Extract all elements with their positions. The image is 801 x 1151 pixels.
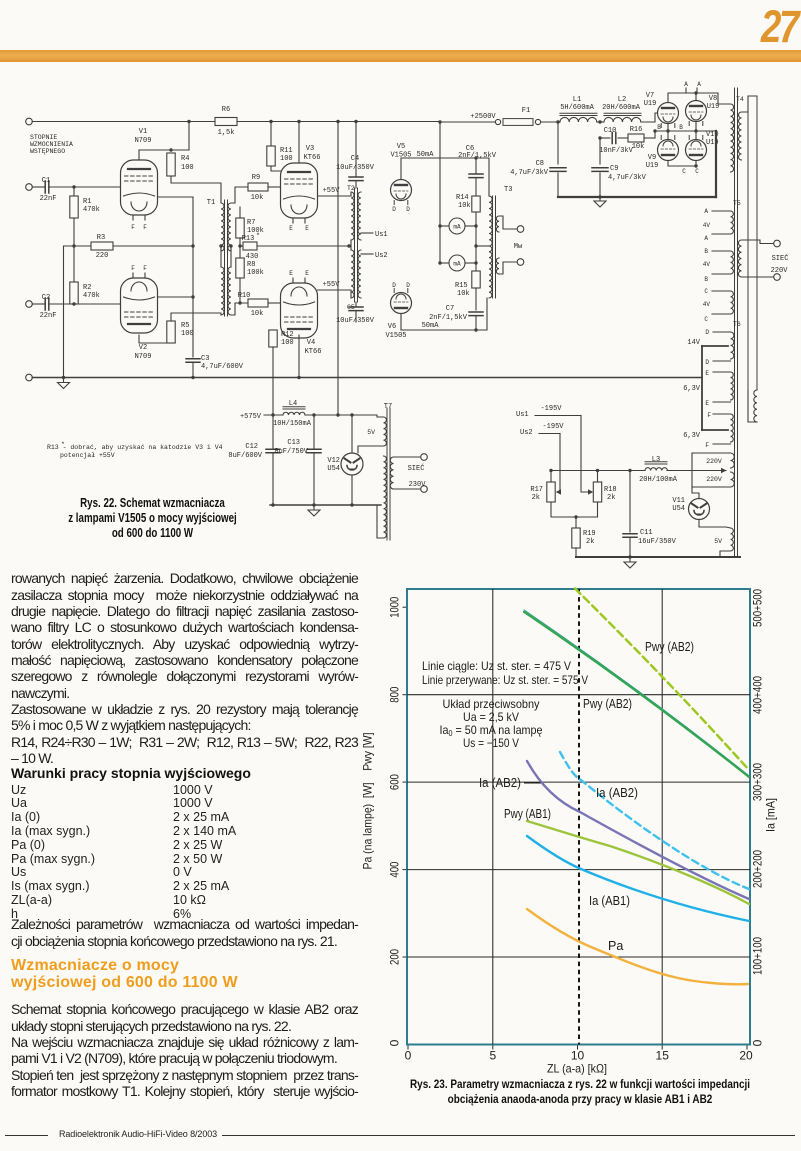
- svg-text:V3: V3: [306, 145, 314, 153]
- svg-text:4V: 4V: [703, 222, 711, 229]
- resistor R9: [248, 183, 268, 191]
- capacitor C5: [355, 302, 357, 306]
- potentiometer R17: [547, 482, 555, 502]
- node ground terminal: [26, 374, 33, 381]
- svg-text:A: A: [704, 235, 708, 242]
- svg-text:5V: 5V: [367, 429, 375, 436]
- svg-text:D: D: [392, 282, 396, 289]
- svg-text:Us2: Us2: [375, 252, 388, 260]
- meter mA1: [440, 225, 449, 227]
- svg-text:0: 0: [405, 1049, 412, 1063]
- svg-text:10k: 10k: [251, 310, 264, 318]
- wire Us1 tap: [361, 232, 373, 234]
- svg-text:V9: V9: [648, 154, 656, 162]
- choke L4 10H/150mA: [283, 407, 305, 409]
- resistor R2: [73, 246, 75, 282]
- capacitor C9: [599, 138, 601, 164]
- svg-text:potencjał +55V: potencjał +55V: [60, 452, 115, 459]
- svg-text:4V: 4V: [703, 261, 711, 268]
- svg-text:1000: 1000: [388, 596, 402, 617]
- svg-text:0: 0: [751, 1039, 765, 1046]
- svg-text:R4: R4: [181, 155, 189, 163]
- svg-text:V12: V12: [327, 457, 340, 465]
- svg-text:A: A: [684, 81, 688, 88]
- resistor R7: [239, 207, 241, 218]
- choke L3 20H/100mA: [551, 470, 645, 472]
- wire V1 cathode to C3: [158, 196, 194, 198]
- svg-text:Us = −150 V: Us = −150 V: [463, 736, 519, 750]
- svg-text:-195V: -195V: [542, 423, 564, 431]
- resistor R15: [475, 263, 477, 271]
- svg-text:100k: 100k: [247, 269, 264, 277]
- svg-text:N709: N709: [135, 353, 152, 361]
- wire V4 cathode +55V: [318, 289, 352, 291]
- svg-text:A: A: [697, 81, 701, 88]
- svg-text:U54: U54: [672, 505, 685, 513]
- svg-text:L4: L4: [289, 400, 297, 408]
- svg-text:R7: R7: [247, 219, 255, 227]
- resistor R11: [270, 122, 272, 147]
- svg-text:N709: N709: [135, 137, 152, 145]
- capacitor C1: [26, 184, 33, 191]
- svg-text:F: F: [707, 412, 711, 419]
- svg-text:Pwy (AB1): Pwy (AB1): [504, 807, 551, 821]
- svg-text:V5: V5: [397, 143, 405, 151]
- svg-text:R18: R18: [604, 486, 617, 494]
- svg-text:U19: U19: [644, 100, 657, 108]
- svg-text:C10: C10: [604, 127, 617, 135]
- wire V5 anode: [401, 158, 489, 196]
- svg-text:ZL (a-a) [kΩ]: ZL (a-a) [kΩ]: [547, 1062, 607, 1076]
- curves: [524, 589, 749, 985]
- svg-text:D: D: [705, 359, 709, 366]
- svg-text:50mA: 50mA: [422, 322, 440, 330]
- resistor R14: [472, 196, 480, 212]
- axis ticks: [407, 1046, 409, 1050]
- svg-text:Linie przerywane: Uz st. ster.: Linie przerywane: Uz st. ster. = 575 V: [422, 673, 588, 687]
- svg-text:T6: T6: [733, 321, 741, 328]
- svg-text:5V: 5V: [714, 538, 722, 545]
- resistor R10: [248, 299, 268, 307]
- svg-text:STOPNIE: STOPNIE: [30, 134, 57, 141]
- svg-text:2k: 2k: [607, 494, 615, 502]
- svg-text:5H/600mA: 5H/600mA: [560, 104, 594, 112]
- svg-text:6,3V: 6,3V: [683, 385, 701, 393]
- svg-text:20H/100mA: 20H/100mA: [639, 476, 678, 484]
- svg-text:C12: C12: [245, 443, 258, 451]
- svg-text:WZMOCNIENIA: WZMOCNIENIA: [30, 141, 73, 148]
- svg-text:2k: 2k: [586, 538, 594, 546]
- svg-text:Us1: Us1: [375, 231, 388, 239]
- svg-text:V2: V2: [139, 344, 147, 352]
- tube V6 V1505: [391, 293, 412, 314]
- potentiometer R18: [593, 482, 601, 502]
- svg-text:470k: 470k: [83, 206, 100, 214]
- svg-text:0: 0: [388, 1039, 402, 1046]
- svg-text:R1: R1: [83, 198, 91, 206]
- svg-text:B: B: [704, 276, 708, 283]
- svg-text:C2: C2: [42, 294, 50, 302]
- winding 5V rectifier heater: [731, 528, 734, 551]
- wire heater bus thick: [701, 346, 703, 430]
- capacitor C8: [557, 122, 559, 164]
- svg-text:Ia [mA]: Ia [mA]: [764, 798, 778, 832]
- wire +2500V drop: [439, 122, 441, 263]
- svg-text:T7: T7: [384, 403, 392, 411]
- svg-text:C: C: [682, 168, 686, 175]
- winding SIEC 220V: [738, 240, 741, 277]
- resistor R16: [628, 134, 644, 142]
- svg-text:R16: R16: [630, 126, 643, 134]
- svg-text:V7: V7: [646, 92, 654, 100]
- svg-text:220V: 220V: [771, 267, 789, 275]
- svg-text:5: 5: [489, 1049, 496, 1063]
- capacitor C3: [186, 359, 200, 363]
- svg-text:C7: C7: [446, 305, 454, 313]
- wire bottom dc bus: [576, 556, 740, 558]
- svg-text:F: F: [131, 265, 135, 272]
- svg-text:F: F: [131, 224, 135, 231]
- svg-text:10k: 10k: [457, 290, 470, 298]
- svg-text:16uF/350V: 16uF/350V: [638, 538, 677, 546]
- svg-text:10uF/350V: 10uF/350V: [336, 164, 375, 172]
- svg-text:Ia (AB1): Ia (AB1): [589, 894, 630, 908]
- svg-text:220V: 220V: [706, 458, 722, 465]
- tube V2 N709: [121, 278, 158, 333]
- svg-text:R19: R19: [583, 530, 596, 538]
- svg-text:10uF/350V: 10uF/350V: [336, 317, 375, 325]
- wire: [597, 121, 604, 123]
- capacitor C12: [272, 415, 274, 448]
- capacitor C4: [355, 122, 357, 177]
- svg-text:Pa: Pa: [608, 939, 623, 953]
- svg-text:C13: C13: [287, 439, 300, 447]
- svg-text:100: 100: [280, 155, 293, 163]
- svg-text:C: C: [704, 316, 708, 323]
- svg-text:F1: F1: [522, 107, 530, 115]
- svg-text:T1: T1: [207, 199, 215, 207]
- svg-text:100+100: 100+100: [751, 937, 765, 975]
- svg-text:C11: C11: [640, 529, 653, 537]
- svg-text:E: E: [305, 225, 309, 232]
- tube V10 U19: [686, 140, 707, 161]
- svg-text:B: B: [704, 248, 708, 255]
- capacitor C10: [600, 137, 610, 139]
- svg-text:10k: 10k: [632, 143, 645, 151]
- svg-text:A: A: [704, 208, 708, 215]
- node input terminal IN1: [26, 118, 33, 125]
- capacitor C2: [26, 301, 33, 308]
- svg-text:R6: R6: [222, 106, 230, 114]
- svg-text:C: C: [695, 168, 699, 175]
- ground output: [624, 558, 636, 568]
- svg-text:V4: V4: [307, 339, 315, 347]
- svg-text:14V: 14V: [687, 339, 700, 347]
- wire rectifier top A: [668, 93, 718, 103]
- tube V11 U54: [689, 499, 710, 520]
- svg-text:mA: mA: [453, 260, 461, 267]
- resistor R12: [272, 330, 274, 338]
- svg-text:4,7uF/3kV: 4,7uF/3kV: [510, 169, 549, 177]
- svg-text:10nF/3kV: 10nF/3kV: [599, 147, 633, 155]
- gridlines: [407, 694, 750, 696]
- svg-text:KT66: KT66: [305, 348, 322, 356]
- svg-text:U19: U19: [707, 103, 720, 111]
- winding 220V anode: [731, 453, 735, 468]
- svg-text:500+500: 500+500: [751, 589, 765, 627]
- wire T3 centre tap: [475, 226, 477, 263]
- svg-text:T5: T5: [733, 200, 741, 207]
- svg-text:D: D: [406, 282, 410, 289]
- wire T1 secondary taps: [231, 187, 248, 203]
- svg-text:T2: T2: [347, 185, 355, 192]
- svg-text:Ia (AB2): Ia (AB2): [479, 776, 521, 790]
- svg-text:E: E: [305, 270, 309, 277]
- svg-text:100: 100: [181, 330, 194, 338]
- svg-text:1,5k: 1,5k: [218, 129, 235, 137]
- svg-text:D: D: [392, 206, 396, 213]
- curve labels: [422, 640, 694, 953]
- capacitor C6: [475, 158, 477, 173]
- svg-text:E: E: [705, 400, 709, 407]
- svg-text:200+200: 200+200: [751, 850, 765, 888]
- chart frame: [403, 589, 751, 1050]
- wire pot bottoms: [551, 502, 598, 517]
- svg-text:U19: U19: [646, 162, 659, 170]
- tube V9 U19: [658, 140, 679, 161]
- svg-text:C4: C4: [351, 155, 359, 163]
- svg-text:Us1: Us1: [516, 411, 529, 419]
- tube V1 N709: [121, 160, 158, 215]
- svg-text:R17: R17: [530, 486, 543, 494]
- svg-text:V1: V1: [139, 128, 147, 136]
- svg-text:Pwy (AB2): Pwy (AB2): [583, 697, 632, 711]
- ground supply: [558, 196, 716, 198]
- wire Mw secondary: [499, 216, 517, 229]
- svg-text:10: 10: [571, 1049, 585, 1063]
- fuse F1: [440, 121, 496, 123]
- wire rectifier mid B: [667, 124, 669, 140]
- wire Us2 tap: [361, 253, 373, 255]
- resistor R13: [240, 245, 243, 247]
- svg-text:F: F: [705, 442, 709, 449]
- svg-text:F: F: [143, 265, 147, 272]
- svg-text:SIEĆ: SIEĆ: [408, 463, 425, 473]
- svg-text:C8: C8: [536, 160, 544, 168]
- svg-text:Pa (na lampę) [W] Pwy [W]: Pa (na lampę) [W] Pwy [W]: [361, 733, 375, 870]
- svg-text:R10: R10: [238, 292, 251, 300]
- capacitor C7: [469, 312, 483, 316]
- resistor R1: [73, 187, 75, 196]
- svg-text:R15: R15: [455, 282, 468, 290]
- svg-text:20H/600mA: 20H/600mA: [602, 104, 641, 112]
- resistor R4: [167, 153, 175, 176]
- tube V8 U19: [686, 101, 707, 122]
- svg-text:B: B: [657, 124, 661, 131]
- wire pot tops: [550, 471, 552, 483]
- wire V6 anode: [401, 298, 487, 330]
- svg-text:Mw: Mw: [514, 243, 523, 251]
- svg-text:Ua = 2,5 kV: Ua = 2,5 kV: [463, 710, 519, 724]
- wire V1 anode: [188, 122, 190, 151]
- svg-text:20: 20: [739, 1049, 753, 1063]
- svg-text:Linie ciągle: Uz st. ster. = 4: Linie ciągle: Uz st. ster. = 475 V: [422, 659, 571, 673]
- resistor R6: [215, 118, 237, 126]
- capacitor C13: [313, 415, 315, 448]
- svg-text:F: F: [143, 224, 147, 231]
- wire to rectifier: [641, 113, 658, 122]
- svg-text:C3: C3: [201, 355, 209, 363]
- tube V5 V1505: [391, 180, 412, 201]
- svg-text:*: *: [61, 441, 65, 448]
- wire V3 anode: [298, 122, 300, 164]
- winding T7 primary: [390, 457, 393, 489]
- svg-text:C: C: [704, 288, 708, 295]
- svg-text:800: 800: [388, 686, 402, 702]
- svg-text:Układ przeciwsobny: Układ przeciwsobny: [443, 697, 540, 711]
- capacitor C11: [629, 471, 631, 533]
- svg-text:R3: R3: [97, 234, 105, 242]
- wire HV secondary right: [742, 96, 758, 112]
- svg-text:R2: R2: [83, 284, 91, 292]
- wire ground branch: [63, 246, 65, 378]
- svg-text:T3: T3: [504, 186, 512, 194]
- meter mA2: [440, 262, 449, 264]
- wire +575V feed: [337, 122, 339, 416]
- svg-text:4,7uF/600V: 4,7uF/600V: [201, 363, 244, 371]
- svg-text:L3: L3: [652, 456, 660, 464]
- svg-text:D: D: [406, 206, 410, 213]
- svg-text:470k: 470k: [83, 292, 100, 300]
- svg-text:U54: U54: [327, 465, 340, 473]
- tube V12 U54: [351, 415, 353, 453]
- svg-text:2nF/1,5kV: 2nF/1,5kV: [429, 314, 468, 322]
- svg-text:+2500V: +2500V: [470, 113, 496, 121]
- svg-text:R13 - dobrać, aby uzyskać na k: R13 - dobrać, aby uzyskać na katodzie V3…: [47, 444, 223, 451]
- svg-text:200: 200: [388, 949, 402, 965]
- svg-text:230V: 230V: [409, 481, 427, 489]
- svg-text:10H/150mA: 10H/150mA: [273, 420, 312, 428]
- svg-text:100: 100: [181, 164, 194, 172]
- svg-text:E: E: [289, 225, 293, 232]
- svg-text:V8: V8: [709, 95, 717, 103]
- svg-text:R9: R9: [252, 174, 260, 182]
- svg-text:220: 220: [96, 252, 109, 260]
- wire rectifier dc rail: [270, 504, 381, 506]
- svg-text:mA: mA: [453, 223, 461, 230]
- svg-text:E: E: [289, 270, 293, 277]
- svg-text:E: E: [705, 370, 709, 377]
- resistor R3: [72, 244, 75, 247]
- svg-text:400: 400: [388, 861, 402, 877]
- svg-text:R5: R5: [181, 322, 189, 330]
- svg-text:R8: R8: [247, 261, 255, 269]
- ground main: [58, 379, 70, 389]
- svg-text:Pwy (AB2): Pwy (AB2): [645, 640, 694, 654]
- svg-text:Us2: Us2: [520, 429, 533, 437]
- svg-text:*: *: [256, 233, 260, 241]
- svg-text:8uF/750V: 8uF/750V: [274, 448, 308, 456]
- svg-text:R13: R13: [242, 235, 255, 243]
- svg-text:22nF: 22nF: [40, 312, 57, 320]
- svg-text:4V: 4V: [703, 301, 711, 308]
- svg-text:SIEĆ: SIEĆ: [772, 253, 789, 263]
- wire top rail +575V: [32, 121, 440, 123]
- choke L1 5H/600mA: [560, 113, 597, 115]
- svg-text:430: 430: [246, 253, 259, 261]
- svg-text:C9: C9: [610, 165, 618, 173]
- svg-text:V1505: V1505: [385, 332, 406, 340]
- tube V3 KT66: [281, 163, 318, 218]
- svg-text:C5: C5: [347, 304, 355, 311]
- svg-text:+575V: +575V: [240, 413, 262, 421]
- svg-text:15: 15: [656, 1049, 670, 1063]
- svg-text:10k: 10k: [251, 194, 264, 202]
- svg-text:B: B: [679, 124, 683, 131]
- svg-text:L2: L2: [618, 96, 626, 104]
- svg-text:R12: R12: [281, 331, 294, 339]
- resistor R8: [239, 246, 241, 258]
- svg-text:100: 100: [281, 339, 294, 347]
- svg-text:-195V: -195V: [540, 405, 562, 413]
- svg-text:R14: R14: [456, 194, 469, 202]
- svg-text:400+400: 400+400: [751, 676, 765, 714]
- resistor R19: [575, 517, 577, 528]
- ground supply2: [308, 506, 320, 516]
- tube V4 KT66: [281, 283, 318, 338]
- svg-text:4,7uF/3kV: 4,7uF/3kV: [608, 174, 647, 182]
- svg-text:600: 600: [388, 774, 402, 790]
- resistor R5: [139, 335, 171, 343]
- svg-text:Ia (AB2): Ia (AB2): [596, 786, 638, 800]
- svg-text:6,3V: 6,3V: [683, 432, 701, 440]
- svg-text:KT66: KT66: [304, 154, 321, 162]
- svg-text:2nF/1,5kV: 2nF/1,5kV: [458, 152, 497, 160]
- svg-text:D: D: [705, 329, 709, 336]
- svg-text:WSTĘPNEGO: WSTĘPNEGO: [30, 148, 65, 155]
- svg-text:C1: C1: [42, 177, 50, 185]
- wire rectifier bottom C: [668, 161, 696, 167]
- svg-text:2k: 2k: [532, 494, 540, 502]
- svg-text:220V: 220V: [706, 476, 722, 483]
- svg-text:V6: V6: [388, 323, 396, 331]
- wire main ground rail: [32, 377, 702, 379]
- wire V3 cathode +55V: [318, 195, 352, 197]
- svg-text:R11: R11: [280, 147, 293, 155]
- wire V4 anode to rail: [298, 335, 300, 378]
- svg-text:V11: V11: [672, 497, 685, 505]
- tube V7 U19: [658, 103, 679, 124]
- svg-text:L1: L1: [573, 96, 581, 104]
- svg-text:8uF/600V: 8uF/600V: [228, 452, 262, 460]
- svg-text:10k: 10k: [458, 202, 471, 210]
- choke L2 20H/600mA: [604, 113, 641, 115]
- svg-text:22nF: 22nF: [40, 195, 57, 203]
- svg-text:300+300: 300+300: [751, 763, 765, 801]
